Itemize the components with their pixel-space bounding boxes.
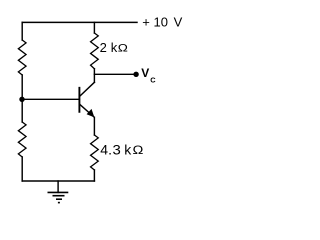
wire to ground rail xyxy=(93,170,95,181)
wire left middle xyxy=(21,75,23,122)
ground stem xyxy=(57,181,59,192)
svg-text:2: 2 xyxy=(100,40,107,55)
ground bar 3 xyxy=(56,198,62,200)
svg-text:C: C xyxy=(150,75,156,84)
svg-text:k: k xyxy=(111,40,118,55)
ground bar 4 xyxy=(58,202,60,204)
wire emitter lower xyxy=(93,117,95,135)
transistor Q1 emitter lead xyxy=(80,105,94,117)
svg-text:V: V xyxy=(174,14,183,29)
resistor R4 4.3 kOhm xyxy=(91,135,99,170)
svg-text:+ 10: + 10 xyxy=(142,14,168,29)
transistor Q1 base bar xyxy=(78,88,80,112)
wire left bottom xyxy=(21,157,23,181)
svg-text:.: . xyxy=(108,142,112,158)
svg-text:V: V xyxy=(141,66,149,80)
transistor Q1 emitter arrowhead xyxy=(87,109,95,118)
svg-text:Ω: Ω xyxy=(133,143,144,157)
ground bar 1 xyxy=(48,191,69,193)
wire Vc tap xyxy=(94,73,133,75)
wire collector upper xyxy=(93,69,95,83)
svg-text:Ω: Ω xyxy=(118,42,128,54)
ground bar 2 xyxy=(53,195,65,197)
resistor R1 (upper left, unlabeled) xyxy=(18,40,26,75)
svg-text:4: 4 xyxy=(100,142,108,158)
wire bottom rail xyxy=(22,180,94,182)
resistor R2 (lower left, unlabeled) xyxy=(18,122,26,157)
svg-text:k: k xyxy=(124,142,132,158)
node B junction dot xyxy=(19,97,24,102)
wire left branch upper xyxy=(21,22,23,40)
svg-text:3: 3 xyxy=(113,142,122,158)
node Vc dot xyxy=(133,72,138,77)
wire top rail xyxy=(22,21,137,23)
transistor Q1 collector lead xyxy=(80,82,94,96)
resistor R3 2 kOhm xyxy=(91,33,99,69)
wire right branch top xyxy=(93,22,95,33)
wire base xyxy=(22,98,79,100)
